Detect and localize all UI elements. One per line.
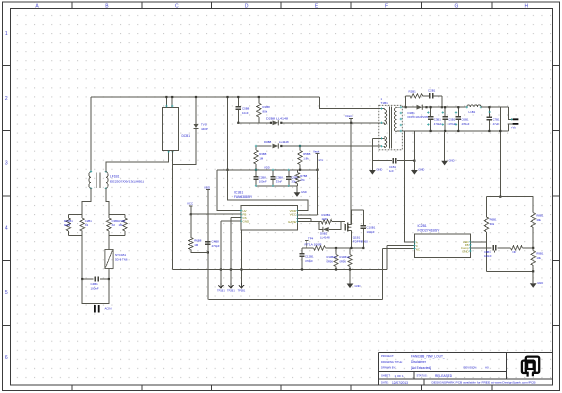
svg-text:GND: GND xyxy=(418,168,424,172)
svg-text:DESIGNSPARK PCB available for: DESIGNSPARK PCB available for FREE at ww… xyxy=(432,381,537,384)
wire ladder left down xyxy=(81,236,83,280)
svg-text:1M: 1M xyxy=(119,223,124,227)
label C7B1 xyxy=(493,118,500,126)
svg-text:X2: X2 xyxy=(85,223,89,227)
resistor R13B1A xyxy=(334,248,338,271)
svg-text:Drain: Drain xyxy=(346,114,353,118)
capacitor C10B1 xyxy=(351,210,366,249)
svg-text:10k: 10k xyxy=(536,256,541,260)
label R9B1 xyxy=(536,252,543,260)
wire bridge top pins xyxy=(165,96,173,108)
label D9B1 xyxy=(320,232,330,240)
svg-text:EE2507/09/13(LMB1): EE2507/09/13(LMB1) xyxy=(110,180,144,184)
wire comp line xyxy=(470,247,533,249)
label R7B8 xyxy=(300,174,307,182)
wire NTC down xyxy=(108,269,110,280)
ground feedback xyxy=(530,270,537,288)
label T1B1 xyxy=(381,97,389,105)
svg-text:1M: 1M xyxy=(259,156,264,160)
svg-text:VDD: VDD xyxy=(264,165,270,169)
resistor R7B8 xyxy=(286,170,291,186)
label R7B8c xyxy=(291,176,298,184)
wire CS pin down xyxy=(220,221,241,283)
wire GND pin down xyxy=(240,230,242,283)
svg-text:1.8k: 1.8k xyxy=(303,156,309,160)
wire VCC pin wire xyxy=(190,213,241,215)
label C8B1 xyxy=(484,250,492,258)
wire sense divider drop xyxy=(499,107,501,198)
transistor Q1 Q1B1 xyxy=(345,210,351,248)
svg-text:SHEET:: SHEET: xyxy=(381,374,391,378)
svg-text:0R56: 0R56 xyxy=(327,259,334,263)
svg-text:DRAWING TITLE:: DRAWING TITLE: xyxy=(381,360,403,364)
svg-text:470uF: 470uF xyxy=(462,122,470,126)
svg-text:A0: A0 xyxy=(485,366,489,370)
label C5B1o xyxy=(442,111,457,126)
wire drain vertical xyxy=(350,119,352,225)
svg-text:10nF: 10nF xyxy=(242,111,249,115)
frame row numbers 1-6 xyxy=(5,31,8,361)
label C3B1o xyxy=(427,111,442,126)
varistor RV1B1 xyxy=(66,214,70,235)
resistor R8B8 v xyxy=(295,170,299,186)
svg-text:VDD: VDD xyxy=(204,185,210,189)
label D1B1 xyxy=(408,111,429,119)
IC U1 IC1B1 xyxy=(241,206,298,230)
label LF1B1 xyxy=(110,175,144,184)
svg-text:LF1B1: LF1B1 xyxy=(110,175,120,179)
svg-text:GND: GND xyxy=(537,281,543,285)
diode D2B8 xyxy=(270,120,283,125)
wire TVS top xyxy=(195,96,197,124)
svg-text:R13B1A: R13B1A xyxy=(327,255,337,259)
label R6B8 xyxy=(194,239,202,247)
node VDD flag A xyxy=(204,185,210,189)
wire HV right pin xyxy=(298,210,308,212)
wire bus COMP xyxy=(209,249,415,300)
svg-text:1: 1 xyxy=(5,31,8,37)
svg-text:GND: GND xyxy=(355,284,361,288)
svg-text:47uF: 47uF xyxy=(493,122,500,126)
svg-text:TP4: TP4 xyxy=(308,237,314,241)
label R5B8 xyxy=(303,152,311,160)
resistor R7B1 NF xyxy=(511,246,523,250)
wire fb bottom rail xyxy=(486,270,533,272)
svg-text:FFPF10UP20S: FFPF10UP20S xyxy=(408,115,429,119)
resistor R8B1 xyxy=(531,197,535,249)
capacitor C4B1 xyxy=(81,276,110,281)
svg-text:470pF: 470pF xyxy=(305,259,313,263)
capacitor C3B1o xyxy=(428,106,433,132)
node TP1B1 arrow xyxy=(217,283,225,293)
svg-text:R14B1A: R14B1A xyxy=(340,255,350,259)
svg-text:1 OF 1: 1 OF 1 xyxy=(395,374,405,378)
label C2B1 xyxy=(85,219,92,227)
wire VDD rail xyxy=(217,169,319,171)
svg-text:TVS: TVS xyxy=(201,123,207,127)
svg-text:100nF: 100nF xyxy=(484,254,492,258)
svg-text:12/07/2013: 12/07/2013 xyxy=(392,381,408,385)
capacitor C2B1 X2 xyxy=(80,214,84,235)
label R14B1A xyxy=(340,255,350,263)
label R10B1 xyxy=(322,213,331,221)
wire gate diode loop xyxy=(319,222,341,230)
svg-text:L1B1: L1B1 xyxy=(469,110,476,114)
svg-text:0R56: 0R56 xyxy=(340,259,347,263)
transformer T1B1 xyxy=(379,105,403,150)
wire VCC2 pin stub xyxy=(298,219,311,222)
resistor R1B8 xyxy=(257,96,261,123)
svg-text:ACIN: ACIN xyxy=(105,307,112,311)
svg-text:10R: 10R xyxy=(322,217,327,221)
caps box pin marks xyxy=(255,145,301,187)
capacitor C12B1 xyxy=(299,248,304,271)
svg-text:C2B1: C2B1 xyxy=(428,89,436,93)
svg-text:LL4148: LL4148 xyxy=(320,236,330,240)
svg-text:H: H xyxy=(524,3,528,9)
wire output stubs xyxy=(509,107,513,131)
svg-text:LL4148: LL4148 xyxy=(279,140,289,144)
svg-text:440P: 440P xyxy=(201,127,208,131)
svg-text:GND: GND xyxy=(462,249,468,253)
label R13B1A xyxy=(327,255,337,263)
IC2B1 pin names xyxy=(416,240,469,254)
frame column letters A-H xyxy=(35,3,528,9)
capacitor C6B1o xyxy=(456,106,461,132)
svg-text:Vcc: Vcc xyxy=(319,158,324,162)
TVS diode D1B8 xyxy=(194,124,199,131)
resistor R1B1 xyxy=(123,214,127,235)
label R1B8 xyxy=(263,105,271,113)
svg-text:TP2B1: TP2B1 xyxy=(227,290,235,293)
capacitor C2B8 xyxy=(253,170,258,186)
wire bus FB xyxy=(173,245,415,269)
wire LF left down xyxy=(82,188,91,214)
diode D1B1 xyxy=(417,105,428,110)
svg-text:470pF: 470pF xyxy=(212,244,220,248)
wire fb left down xyxy=(485,242,487,271)
resistor R3B8 xyxy=(254,146,258,170)
wire source rail xyxy=(302,247,363,249)
wire snubber loop xyxy=(405,96,443,108)
svg-text:[Ad Extracted]: [Ad Extracted] xyxy=(411,366,431,370)
svg-text:33nF: 33nF xyxy=(276,180,283,184)
wire caps box bottom xyxy=(256,185,298,187)
node Drain flag xyxy=(346,114,354,119)
wire AC bottom loop xyxy=(82,279,109,304)
title block frame xyxy=(379,353,554,385)
svg-text:REVISION:: REVISION: xyxy=(464,365,478,369)
svg-text:1M: 1M xyxy=(194,243,199,247)
node TP3B1 arrow xyxy=(238,283,246,293)
inductor L1B1 xyxy=(466,105,483,109)
label IC2B1 xyxy=(418,224,441,233)
label Q1B1 xyxy=(353,236,368,244)
wire L top bus xyxy=(91,96,319,98)
svg-text:4: 4 xyxy=(5,225,8,231)
svg-text:FOD2741BSY: FOD2741BSY xyxy=(418,229,441,233)
ground aux left xyxy=(369,161,376,175)
svg-text:470uF: 470uF xyxy=(434,122,442,126)
svg-text:470uF: 470uF xyxy=(448,122,456,126)
svg-text:GND: GND xyxy=(376,168,382,172)
resistor R6B1 xyxy=(470,197,488,242)
wire LF right down xyxy=(106,188,109,214)
svg-text:100nF: 100nF xyxy=(91,287,99,291)
capacitor C1B1 xyxy=(393,158,415,163)
svg-text:PROJECT:: PROJECT: xyxy=(381,354,394,358)
label C1B1 xyxy=(389,165,396,173)
svg-text:Disclaimer: Disclaimer xyxy=(411,360,427,364)
wire AC live drop xyxy=(90,97,92,172)
ground secondary left xyxy=(411,131,418,175)
ground secondary right xyxy=(441,131,448,165)
resistor R6B8 xyxy=(189,206,208,252)
wire aux top lead xyxy=(372,138,380,160)
label C4B1 xyxy=(91,282,99,291)
svg-text:VCC: VCC xyxy=(290,213,297,217)
label RV1B1 xyxy=(64,219,73,227)
svg-text:C8B1: C8B1 xyxy=(484,250,491,254)
svg-text:IC1B1: IC1B1 xyxy=(234,191,243,195)
ground primary small xyxy=(294,186,301,197)
wire HV pin route xyxy=(217,170,241,211)
connector ACIN plug xyxy=(95,305,99,313)
resistor R10B1 xyxy=(321,220,332,224)
capacitor C5B8 xyxy=(236,96,241,124)
svg-text:D: D xyxy=(245,3,249,9)
capacitor C5B1o xyxy=(442,106,447,132)
label R3B8 xyxy=(259,152,267,160)
bridge rectifier DCB1 xyxy=(163,107,179,150)
IC2B1 pin marks xyxy=(413,241,471,253)
label IC1B1 xyxy=(234,191,253,200)
wire secondary rail xyxy=(402,106,467,108)
svg-text:VCC: VCC xyxy=(187,202,193,206)
node VCC flag B xyxy=(187,202,193,206)
wire Vaux stem to VCC xyxy=(298,154,318,215)
wire C1B1 line xyxy=(372,160,414,162)
svg-text:TP1B1: TP1B1 xyxy=(217,290,225,293)
svg-text:TP3B1: TP3B1 xyxy=(238,290,246,293)
IC U2 IC2B1 xyxy=(414,234,470,258)
svg-text:6: 6 xyxy=(5,355,8,361)
IC1B1 pin names xyxy=(243,209,297,224)
label C10B1 xyxy=(367,226,376,234)
svg-text:NTC1B1: NTC1B1 xyxy=(115,253,126,257)
label C4B8 xyxy=(212,240,220,248)
svg-text:F: F xyxy=(385,3,388,9)
svg-text:GND: GND xyxy=(449,158,455,162)
resistor RT1A xyxy=(314,246,326,250)
wire bridge AC return xyxy=(106,151,174,172)
svg-text:R2B1: R2B1 xyxy=(409,90,417,94)
label C12B1 xyxy=(305,255,314,263)
label TVS xyxy=(201,123,208,132)
wire input ladder rails xyxy=(68,214,125,235)
capacitor C4B8 xyxy=(205,242,210,245)
svg-text:STATUS:: STATUS: xyxy=(417,374,428,378)
node TP2B1 arrow xyxy=(227,283,235,293)
svg-text:47k: 47k xyxy=(300,178,305,182)
label C6B1o xyxy=(455,111,470,126)
svg-text:D3B8: D3B8 xyxy=(264,140,272,144)
label C3B1 xyxy=(112,219,119,227)
svg-text:100nF: 100nF xyxy=(259,180,267,184)
svg-text:3: 3 xyxy=(5,161,8,167)
svg-text:10k: 10k xyxy=(490,222,495,226)
svg-text:X2: X2 xyxy=(112,223,116,227)
resistor R2B1 xyxy=(410,94,423,98)
svg-text:100pF: 100pF xyxy=(367,230,375,234)
node Vaux flag xyxy=(313,149,324,162)
svg-text:G: G xyxy=(454,3,458,9)
svg-text:DRAWN BY:: DRAWN BY: xyxy=(381,366,396,370)
svg-text:C: C xyxy=(175,3,179,9)
wire gate line xyxy=(298,221,346,223)
capacitor C8B1 xyxy=(493,245,496,252)
wire secondary bottom rail xyxy=(402,130,508,132)
svg-text:5D-9 TN6: 5D-9 TN6 xyxy=(115,258,128,262)
wire FB pin down xyxy=(230,218,241,283)
capacitor C3B1 X2 xyxy=(107,214,111,235)
svg-text:Vaux: Vaux xyxy=(313,149,320,153)
wire gate R stubs xyxy=(319,221,335,223)
svg-text:NF: NF xyxy=(513,250,517,254)
svg-text:C4B1: C4B1 xyxy=(91,282,99,286)
capacitor C2B1s xyxy=(430,93,433,98)
wire opto cathode to 0V xyxy=(404,131,414,242)
svg-text:5: 5 xyxy=(5,290,8,296)
svg-text:FAN6388SY: FAN6388SY xyxy=(234,195,253,199)
svg-text:FAN6388_78W_LOUT_: FAN6388_78W_LOUT_ xyxy=(411,355,445,359)
wire bridge DC minus xyxy=(172,151,174,270)
connector +Vo xyxy=(513,119,519,124)
diode D9B1 xyxy=(323,227,329,232)
resistor R5B8 xyxy=(298,145,302,170)
wire fb top rail xyxy=(486,196,533,198)
svg-text:GND: GND xyxy=(301,190,307,194)
wire VDD flag stem xyxy=(207,190,209,300)
diode D3B8 xyxy=(273,143,283,148)
capacitor C7B1 xyxy=(487,106,492,132)
wire after inductor xyxy=(481,106,509,108)
svg-text:1nF: 1nF xyxy=(389,169,394,173)
svg-text:FDPF8N60: FDPF8N60 xyxy=(353,240,368,244)
capacitor C3B8 xyxy=(270,170,275,186)
wire HV bus vertical xyxy=(226,96,307,211)
svg-text:NC: NC xyxy=(416,247,420,251)
svg-text:D2B8 LL4148: D2B8 LL4148 xyxy=(266,117,288,121)
wire X-cap line xyxy=(82,278,109,280)
IC1B1 pin marks xyxy=(240,210,299,223)
wire aux rect line xyxy=(238,122,380,124)
svg-text:DCB1: DCB1 xyxy=(182,134,191,138)
svg-text:IC2B1: IC2B1 xyxy=(418,224,427,228)
thermistor NTC1B1 xyxy=(105,250,113,269)
line filter LF1B1 xyxy=(89,170,108,189)
label R1B1 xyxy=(119,219,126,227)
label C3B8 xyxy=(276,176,283,184)
label C2B8 xyxy=(259,176,267,184)
ground primary main xyxy=(347,270,354,289)
resistor R9B1 xyxy=(531,248,535,271)
svg-text:RELEASED: RELEASED xyxy=(435,374,453,378)
label R8B1 xyxy=(536,214,543,222)
label D3B8 xyxy=(264,140,289,144)
svg-text:GATE: GATE xyxy=(288,220,296,224)
label NTC1B1 xyxy=(115,253,128,262)
wire aux line2 xyxy=(256,145,381,147)
svg-text:80k: 80k xyxy=(263,109,268,113)
svg-text:2: 2 xyxy=(5,96,8,102)
svg-text:MOV: MOV xyxy=(64,223,71,227)
title block text xyxy=(381,354,536,385)
DesignSpark logo xyxy=(522,357,539,377)
svg-text:GND: GND xyxy=(243,220,251,224)
wire bus step to transformer xyxy=(319,97,381,109)
svg-text:39k: 39k xyxy=(536,218,541,222)
wire TVS bottom xyxy=(173,131,196,165)
label R6B1 xyxy=(490,218,497,226)
label C5B8 xyxy=(242,107,250,115)
node TP4 flag xyxy=(305,237,314,249)
svg-text:+Vo: +Vo xyxy=(511,126,516,130)
svg-text:T1B1: T1B1 xyxy=(381,101,389,105)
resistor R14B1A xyxy=(348,248,352,271)
wire ladder right down xyxy=(108,236,110,250)
svg-text:DATE:: DATE: xyxy=(381,381,389,385)
